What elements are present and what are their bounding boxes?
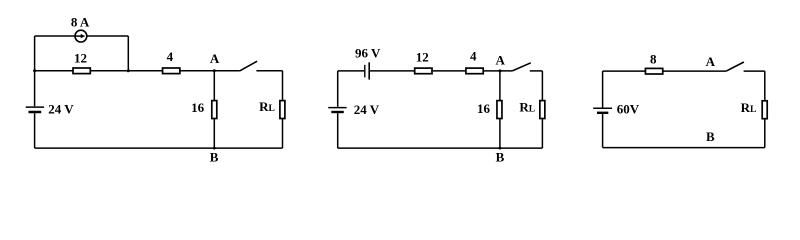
node label B (circuit 3) xyxy=(706,129,715,144)
value label 8 A (ammeter) xyxy=(71,15,90,30)
wire: RL to bottom (circuit 1) xyxy=(282,119,284,148)
value label 4 (circuit 2) xyxy=(470,48,477,63)
svg-text:B: B xyxy=(496,150,505,165)
svg-text:A: A xyxy=(210,51,220,66)
battery 24 V (circuit 1) xyxy=(26,107,44,112)
wire: RL to bottom (circuit 2) xyxy=(541,119,543,148)
node: junction right of 12 (circuit 1) xyxy=(127,69,130,72)
wire: node A down to 16 (circuit 2) xyxy=(499,71,501,100)
wire: top horizontal (circuit 2) xyxy=(370,70,512,72)
wire: right vertical to RL (circuit 3) xyxy=(764,71,766,100)
wire: circuit 3 left vertical xyxy=(602,71,604,148)
svg-text:8: 8 xyxy=(650,51,657,66)
value label 16 (circuit 2) xyxy=(477,101,491,116)
switch S2 (circuit 2) xyxy=(512,63,542,71)
ammeter A1 (circle with arrow) xyxy=(75,30,87,42)
value label RL (circuit 3) xyxy=(741,100,757,115)
node A (circuit 2) xyxy=(499,69,502,72)
svg-text:24 V: 24 V xyxy=(354,102,380,117)
node label A (circuit 2) xyxy=(496,53,506,68)
svg-text:60V: 60V xyxy=(617,102,640,117)
svg-text:B: B xyxy=(706,129,715,144)
node A (circuit 1) xyxy=(213,69,216,72)
value label 4 (circuit 1) xyxy=(167,49,174,64)
wire: top horizontal (circuit 3) xyxy=(603,70,727,72)
node label B (circuit 1) xyxy=(210,149,219,164)
resistor RL (circuit 3) xyxy=(762,101,767,119)
node B (circuit 2) xyxy=(499,147,502,150)
wire: 16 to bottom (circuit 2) xyxy=(499,119,501,148)
resistor 12 ohm (circuit 1) xyxy=(73,68,90,74)
value label RL (circuit 1) xyxy=(259,99,275,114)
wire: ammeter loop top (circuit 1) xyxy=(35,35,129,37)
svg-text:RL: RL xyxy=(741,100,757,115)
wire: circuit 2 left vertical xyxy=(337,71,339,148)
resistor 8 ohm (circuit 3) xyxy=(645,68,662,74)
svg-text:8 A: 8 A xyxy=(71,15,90,30)
wire: top horizontal left of battery 96V (circuit 2) xyxy=(338,70,364,72)
svg-text:24 V: 24 V xyxy=(48,102,74,117)
resistor RL (circuit 1) xyxy=(280,101,285,119)
node label A (circuit 1) xyxy=(210,51,220,66)
svg-text:16: 16 xyxy=(191,100,205,115)
svg-text:12: 12 xyxy=(416,49,429,64)
resistor 12 ohm (circuit 2) xyxy=(415,68,432,74)
svg-text:16: 16 xyxy=(477,101,491,116)
wire: right vertical to RL (circuit 1) xyxy=(282,71,284,100)
value label 24 V (circuit 2) xyxy=(354,102,380,117)
svg-text:12: 12 xyxy=(74,50,87,65)
resistor 16 ohm (circuit 2) xyxy=(497,101,502,119)
value label RL (circuit 2) xyxy=(519,99,535,114)
wire: ammeter loop right vertical xyxy=(127,36,129,71)
wire: node A down to 16 (circuit 1) xyxy=(213,71,215,100)
node label A (circuit 3) xyxy=(706,54,716,69)
node B (circuit 1) xyxy=(213,147,216,150)
value label 60V (circuit 3) xyxy=(617,102,640,117)
battery 24 V (circuit 2) xyxy=(328,108,346,112)
svg-text:B: B xyxy=(210,149,219,164)
wire: main horizontal (circuit 1) xyxy=(35,70,240,72)
resistor 4 ohm (circuit 1) xyxy=(163,68,180,74)
value label 16 (circuit 1) xyxy=(191,100,205,115)
battery 96 V (circuit 2, on top wire) xyxy=(365,62,369,79)
node label B (circuit 2) xyxy=(496,150,505,165)
battery 60V (circuit 3) xyxy=(593,108,612,113)
node: junction left of 12 (circuit 1) xyxy=(33,69,36,72)
switch S3 (circuit 3) xyxy=(726,62,765,71)
wire: right vertical to RL (circuit 2) xyxy=(541,71,543,100)
value label 12 (circuit 2) xyxy=(416,49,429,64)
wire: circuit 1 left vertical (battery branch) xyxy=(34,36,36,148)
svg-text:RL: RL xyxy=(519,99,535,114)
svg-text:RL: RL xyxy=(259,99,275,114)
value label 12 (circuit 1) xyxy=(74,50,87,65)
svg-text:4: 4 xyxy=(167,49,174,64)
wire: RL to bottom (circuit 3) xyxy=(764,119,766,147)
value label 8 (circuit 3) xyxy=(650,51,657,66)
wire: 16 to bottom (circuit 1) xyxy=(213,119,215,148)
resistor 16 ohm (circuit 1) xyxy=(212,101,217,119)
wire: bottom horizontal (circuit 3) xyxy=(603,147,765,149)
value label 96 V (circuit 2) xyxy=(355,45,381,60)
resistor RL (circuit 2) xyxy=(540,101,545,119)
svg-text:96 V: 96 V xyxy=(355,45,381,60)
wire: bottom horizontal (circuit 2) xyxy=(338,147,543,149)
resistor 4 ohm (circuit 2) xyxy=(466,68,483,74)
svg-text:A: A xyxy=(496,53,506,68)
value label 24 V (circuit 1) xyxy=(48,102,74,117)
svg-text:4: 4 xyxy=(470,48,477,63)
wire: bottom horizontal (circuit 1) xyxy=(35,147,283,149)
switch S1 (circuit 1) xyxy=(240,61,283,71)
svg-text:A: A xyxy=(706,54,716,69)
